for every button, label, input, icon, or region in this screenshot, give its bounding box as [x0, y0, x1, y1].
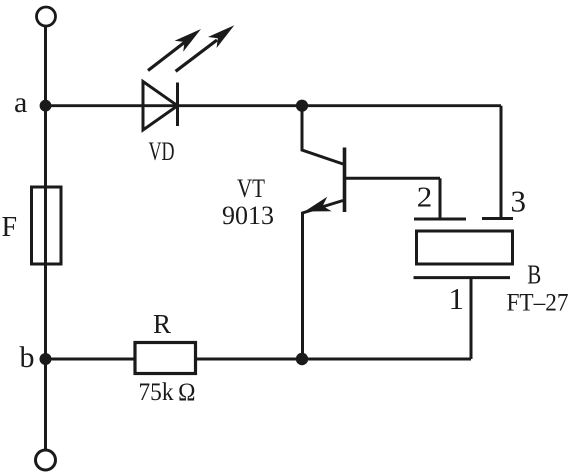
svg-text:2: 2 [417, 182, 433, 214]
svg-text:F: F [2, 212, 18, 243]
svg-text:a: a [14, 86, 27, 119]
svg-text:3: 3 [511, 184, 527, 219]
svg-text:b: b [20, 341, 35, 374]
svg-text:VD: VD [149, 137, 175, 166]
svg-text:FT–27: FT–27 [507, 290, 569, 317]
svg-text:75k Ω: 75k Ω [139, 379, 196, 406]
svg-text:B: B [527, 260, 541, 290]
svg-text:VT: VT [237, 174, 265, 203]
svg-text:1: 1 [449, 281, 465, 316]
svg-text:R: R [153, 309, 171, 339]
svg-text:9013: 9013 [222, 201, 274, 230]
